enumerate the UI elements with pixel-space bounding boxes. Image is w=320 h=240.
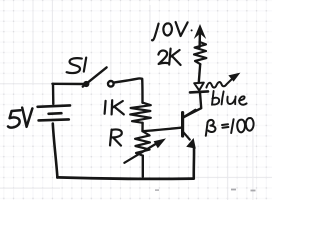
wire: switch throw to 1K branch corner [114,78,141,82]
wire: battery minus down to bottom-left corner [53,124,58,178]
label beta = 100 [206,118,254,136]
label 5V [8,108,32,128]
wire: R bottom to ground rail [142,156,144,177]
battery B1 wire: switch corner down to plus plate [52,84,55,104]
wire: down from corner to 1K resistor top [141,79,144,103]
label S1 [67,58,87,73]
transistor Q1 emitter lead [183,132,190,140]
node: switch pole dot [83,81,89,87]
label 10V [152,22,188,40]
label blue [212,91,247,105]
label 2K [158,49,180,65]
resistor 1K (zigzag) [130,103,151,123]
wire: top-left horizontal from battery corner to switch pole [52,83,83,86]
wire: LED cathode down to collector bend [183,93,201,118]
switch S1 throw terminal (open circle) [108,81,114,87]
supply arrow 10V (up arrow) [198,31,201,47]
transistor Q1 collector lead [183,110,196,118]
wire: base wire from junction to transistor base [143,128,183,132]
wire: 2K bottom to LED anode [199,64,200,82]
wire: 1K bottom to base junction [141,123,144,131]
wire: emitter down to ground rail [192,148,195,178]
LED D1 (triangle + bar) [194,83,204,91]
stray ink dot near V [191,29,193,31]
LED light squiggle arrow [206,79,231,87]
wire: ground rail (bottom) [57,177,193,178]
scan smudges (decorative) [155,189,256,192]
transistor Q1 base bar [181,113,184,136]
battery B1 (5V) plates [38,105,70,120]
label R [110,129,122,145]
arrow through R [124,144,155,163]
resistor 2K (zigzag) [194,42,206,64]
label 1K [105,100,124,114]
switch S1 arm [83,67,107,86]
resistor R (variable, zigzag) [135,131,150,155]
